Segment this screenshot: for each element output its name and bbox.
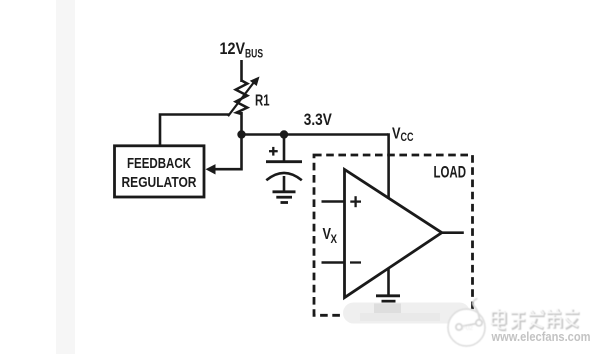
- wire inverting input: [322, 261, 346, 264]
- ground (op-amp): [376, 296, 400, 301]
- capacitor C1 (polarized): [266, 147, 302, 192]
- svg-text:BUS: BUS: [245, 49, 263, 61]
- resistor R1 (variable, zigzag with wiper arrow): [228, 77, 260, 117]
- svg-text:V: V: [392, 126, 401, 143]
- svg-text:www.elecfans.com: www.elecfans.com: [491, 330, 591, 344]
- wire op-amp ground stub: [387, 268, 390, 296]
- wire node 2 to capacitor: [283, 135, 286, 162]
- svg-text:LOAD: LOAD: [434, 164, 467, 182]
- op-amp + input marker: [350, 196, 361, 207]
- wire VCC drop to op-amp: [387, 133, 390, 199]
- node junction 2: [280, 130, 288, 138]
- svg-text:X: X: [331, 234, 338, 246]
- wire node 1 to regulator (feedback sense): [214, 135, 242, 170]
- op-amp − input marker: [350, 261, 361, 263]
- wire wiper to feedback regulator top: [160, 115, 230, 147]
- wire noninverting input: [322, 200, 346, 203]
- op-amp U1: [345, 169, 442, 297]
- ground (capacitor): [273, 192, 296, 203]
- wire from 12V_BUS to resistor top: [240, 60, 243, 82]
- svg-text:REGULATOR: REGULATOR: [122, 174, 197, 191]
- svg-text:F02: F02: [462, 325, 473, 332]
- svg-text:12V: 12V: [220, 40, 246, 58]
- svg-text:CC: CC: [401, 132, 414, 144]
- svg-text:FEEDBACK: FEEDBACK: [127, 155, 191, 172]
- arrowhead into regulator: [206, 164, 216, 174]
- wire op-amp output: [441, 231, 464, 234]
- load box LOAD (dashed): [314, 155, 473, 315]
- node junction 1: [237, 130, 245, 138]
- watermark logo (elecfans): [448, 299, 485, 347]
- svg-text:R1: R1: [255, 93, 270, 110]
- wire 3.3V rail: [242, 133, 389, 136]
- watermark blur patch: [343, 303, 470, 324]
- wire resistor bottom to node 1: [240, 112, 243, 136]
- feedback regulator block: [115, 146, 205, 197]
- svg-text:3.3V: 3.3V: [304, 111, 332, 129]
- watermark text 电子发烧友 (drawn strokes): [492, 309, 580, 330]
